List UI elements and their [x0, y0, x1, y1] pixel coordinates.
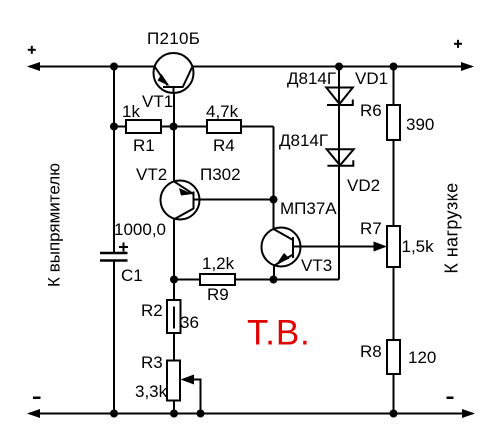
polarity plus top right	[454, 40, 462, 48]
svg-text:П302: П302	[200, 165, 241, 184]
label VD2 type	[279, 131, 328, 150]
svg-text:3,3k: 3,3k	[135, 382, 168, 401]
label C1	[121, 266, 143, 285]
label R6	[360, 101, 382, 120]
label R3	[141, 353, 163, 372]
svg-text:Д814Г: Д814Г	[279, 131, 328, 150]
label R8 value	[408, 348, 436, 367]
diode VD1 zener	[326, 88, 353, 106]
wire R3 wiper to bottom rail	[193, 380, 201, 414]
node VT3 emitter / R9 / VD2	[270, 276, 278, 284]
label VT3	[301, 256, 332, 275]
svg-text:1000,0: 1000,0	[114, 220, 166, 239]
label R6 value	[406, 115, 434, 134]
label VT2	[136, 165, 167, 184]
svg-text:4,7k: 4,7k	[206, 102, 239, 121]
diode VD2 zener	[327, 149, 354, 165]
label R9 value	[202, 254, 235, 273]
svg-text:R4: R4	[213, 136, 235, 155]
node VT2 base / VT3 collector	[270, 196, 278, 204]
label VT1	[142, 92, 173, 111]
label R7	[360, 219, 382, 238]
arrowhead top rail right	[461, 62, 474, 71]
svg-text:VD2: VD2	[347, 176, 380, 195]
label VT3 type	[280, 199, 337, 218]
svg-text:R1: R1	[133, 136, 155, 155]
wire left branch to C1 top	[113, 67, 115, 253]
svg-text:1,5k: 1,5k	[402, 237, 435, 256]
node bottom rail / R3	[170, 410, 178, 418]
transistor VT3	[262, 228, 375, 267]
label VT2 type	[200, 165, 241, 184]
label C1 value	[114, 220, 166, 239]
wire R9 row to VD2 corner	[174, 279, 339, 281]
label R1 value	[122, 102, 140, 121]
label R4 value	[206, 102, 239, 121]
svg-text:120: 120	[408, 348, 436, 367]
resistor R4	[207, 120, 241, 133]
svg-text:R2: R2	[141, 301, 163, 320]
svg-text:C1: C1	[121, 266, 143, 285]
node top rail / zener branch	[335, 63, 343, 71]
svg-text:R9: R9	[207, 285, 229, 304]
arrowhead bottom rail right	[462, 409, 475, 418]
polarity plus top left	[28, 46, 36, 54]
node bottom rail / R3 wiper	[197, 410, 205, 418]
svg-text:К нагрузке: К нагрузке	[442, 182, 462, 273]
wire R1 R4 row	[114, 126, 274, 128]
node top rail / C1 branch	[110, 63, 118, 71]
label VT1 type	[147, 29, 200, 48]
label R3 value	[135, 382, 168, 401]
resistor R8	[387, 340, 400, 374]
transistor VT1	[154, 53, 194, 93]
label R1	[133, 136, 155, 155]
wire zener chain branch	[338, 67, 340, 280]
label R2 value	[180, 313, 199, 332]
label R7 value	[402, 237, 435, 256]
capacitor C1 plus mark	[119, 243, 128, 252]
svg-text:36: 36	[180, 313, 199, 332]
wire R4 down to VT3 collector	[273, 127, 275, 230]
svg-text:П210Б: П210Б	[147, 29, 200, 48]
node top rail / R6 branch	[390, 63, 398, 71]
svg-text:1,2k: 1,2k	[202, 254, 235, 273]
label R2	[141, 301, 163, 320]
arrowhead bottom rail left	[27, 409, 40, 418]
svg-text:1k: 1k	[122, 102, 140, 121]
arrowhead top rail left	[27, 62, 40, 71]
svg-text:Д814Г: Д814Г	[287, 69, 336, 88]
label to load rotated	[442, 182, 462, 273]
label VD1 type	[287, 69, 336, 88]
svg-text:R7: R7	[360, 219, 382, 238]
resistor R7 potentiometer	[374, 226, 401, 267]
wire VT2 collector down through R2 R3 to bottom rail	[173, 219, 175, 414]
svg-text:R3: R3	[141, 353, 163, 372]
label VD2	[347, 176, 380, 195]
polarity minus bottom right	[447, 397, 454, 400]
svg-text:VT1: VT1	[142, 92, 173, 111]
node VT2 collector / R9	[170, 276, 178, 284]
resistor R3 potentiometer	[167, 361, 194, 401]
svg-text:VT2: VT2	[136, 165, 167, 184]
svg-text:Т.В.: Т.В.	[247, 314, 311, 353]
svg-text:R8: R8	[360, 342, 382, 361]
node bottom rail / C1	[110, 410, 118, 418]
resistor R6	[387, 105, 400, 140]
wire right branch R6 R7 R8	[393, 67, 395, 414]
label TV red	[247, 314, 311, 353]
svg-text:К выпрямителю: К выпрямителю	[44, 163, 63, 287]
label R8	[360, 342, 382, 361]
resistor R1	[126, 120, 161, 133]
wire C1 bottom to bottom rail	[113, 262, 115, 414]
label R4	[213, 136, 235, 155]
wire top positive rail	[29, 66, 472, 68]
label VD1	[355, 69, 388, 88]
svg-text:R6: R6	[360, 101, 382, 120]
wire VT3 emitter lead	[273, 265, 275, 280]
capacitor C1	[100, 253, 128, 261]
resistor R2	[167, 300, 181, 333]
wire VT1 base to VT2 emitter	[173, 87, 175, 182]
node C1 branch / R1	[110, 123, 118, 131]
resistor R9	[200, 274, 235, 285]
label to rectifier rotated	[44, 163, 63, 287]
svg-text:VD1: VD1	[355, 69, 388, 88]
node VT1 base / R1 R4	[170, 123, 178, 131]
node bottom rail / R8	[390, 410, 398, 418]
svg-text:390: 390	[406, 115, 434, 134]
polarity minus bottom left	[33, 397, 41, 400]
wire bottom negative rail	[29, 413, 473, 415]
svg-text:VT3: VT3	[301, 256, 332, 275]
transistor VT2	[161, 181, 274, 220]
svg-text:МП37А: МП37А	[280, 199, 337, 218]
label R9	[207, 285, 229, 304]
